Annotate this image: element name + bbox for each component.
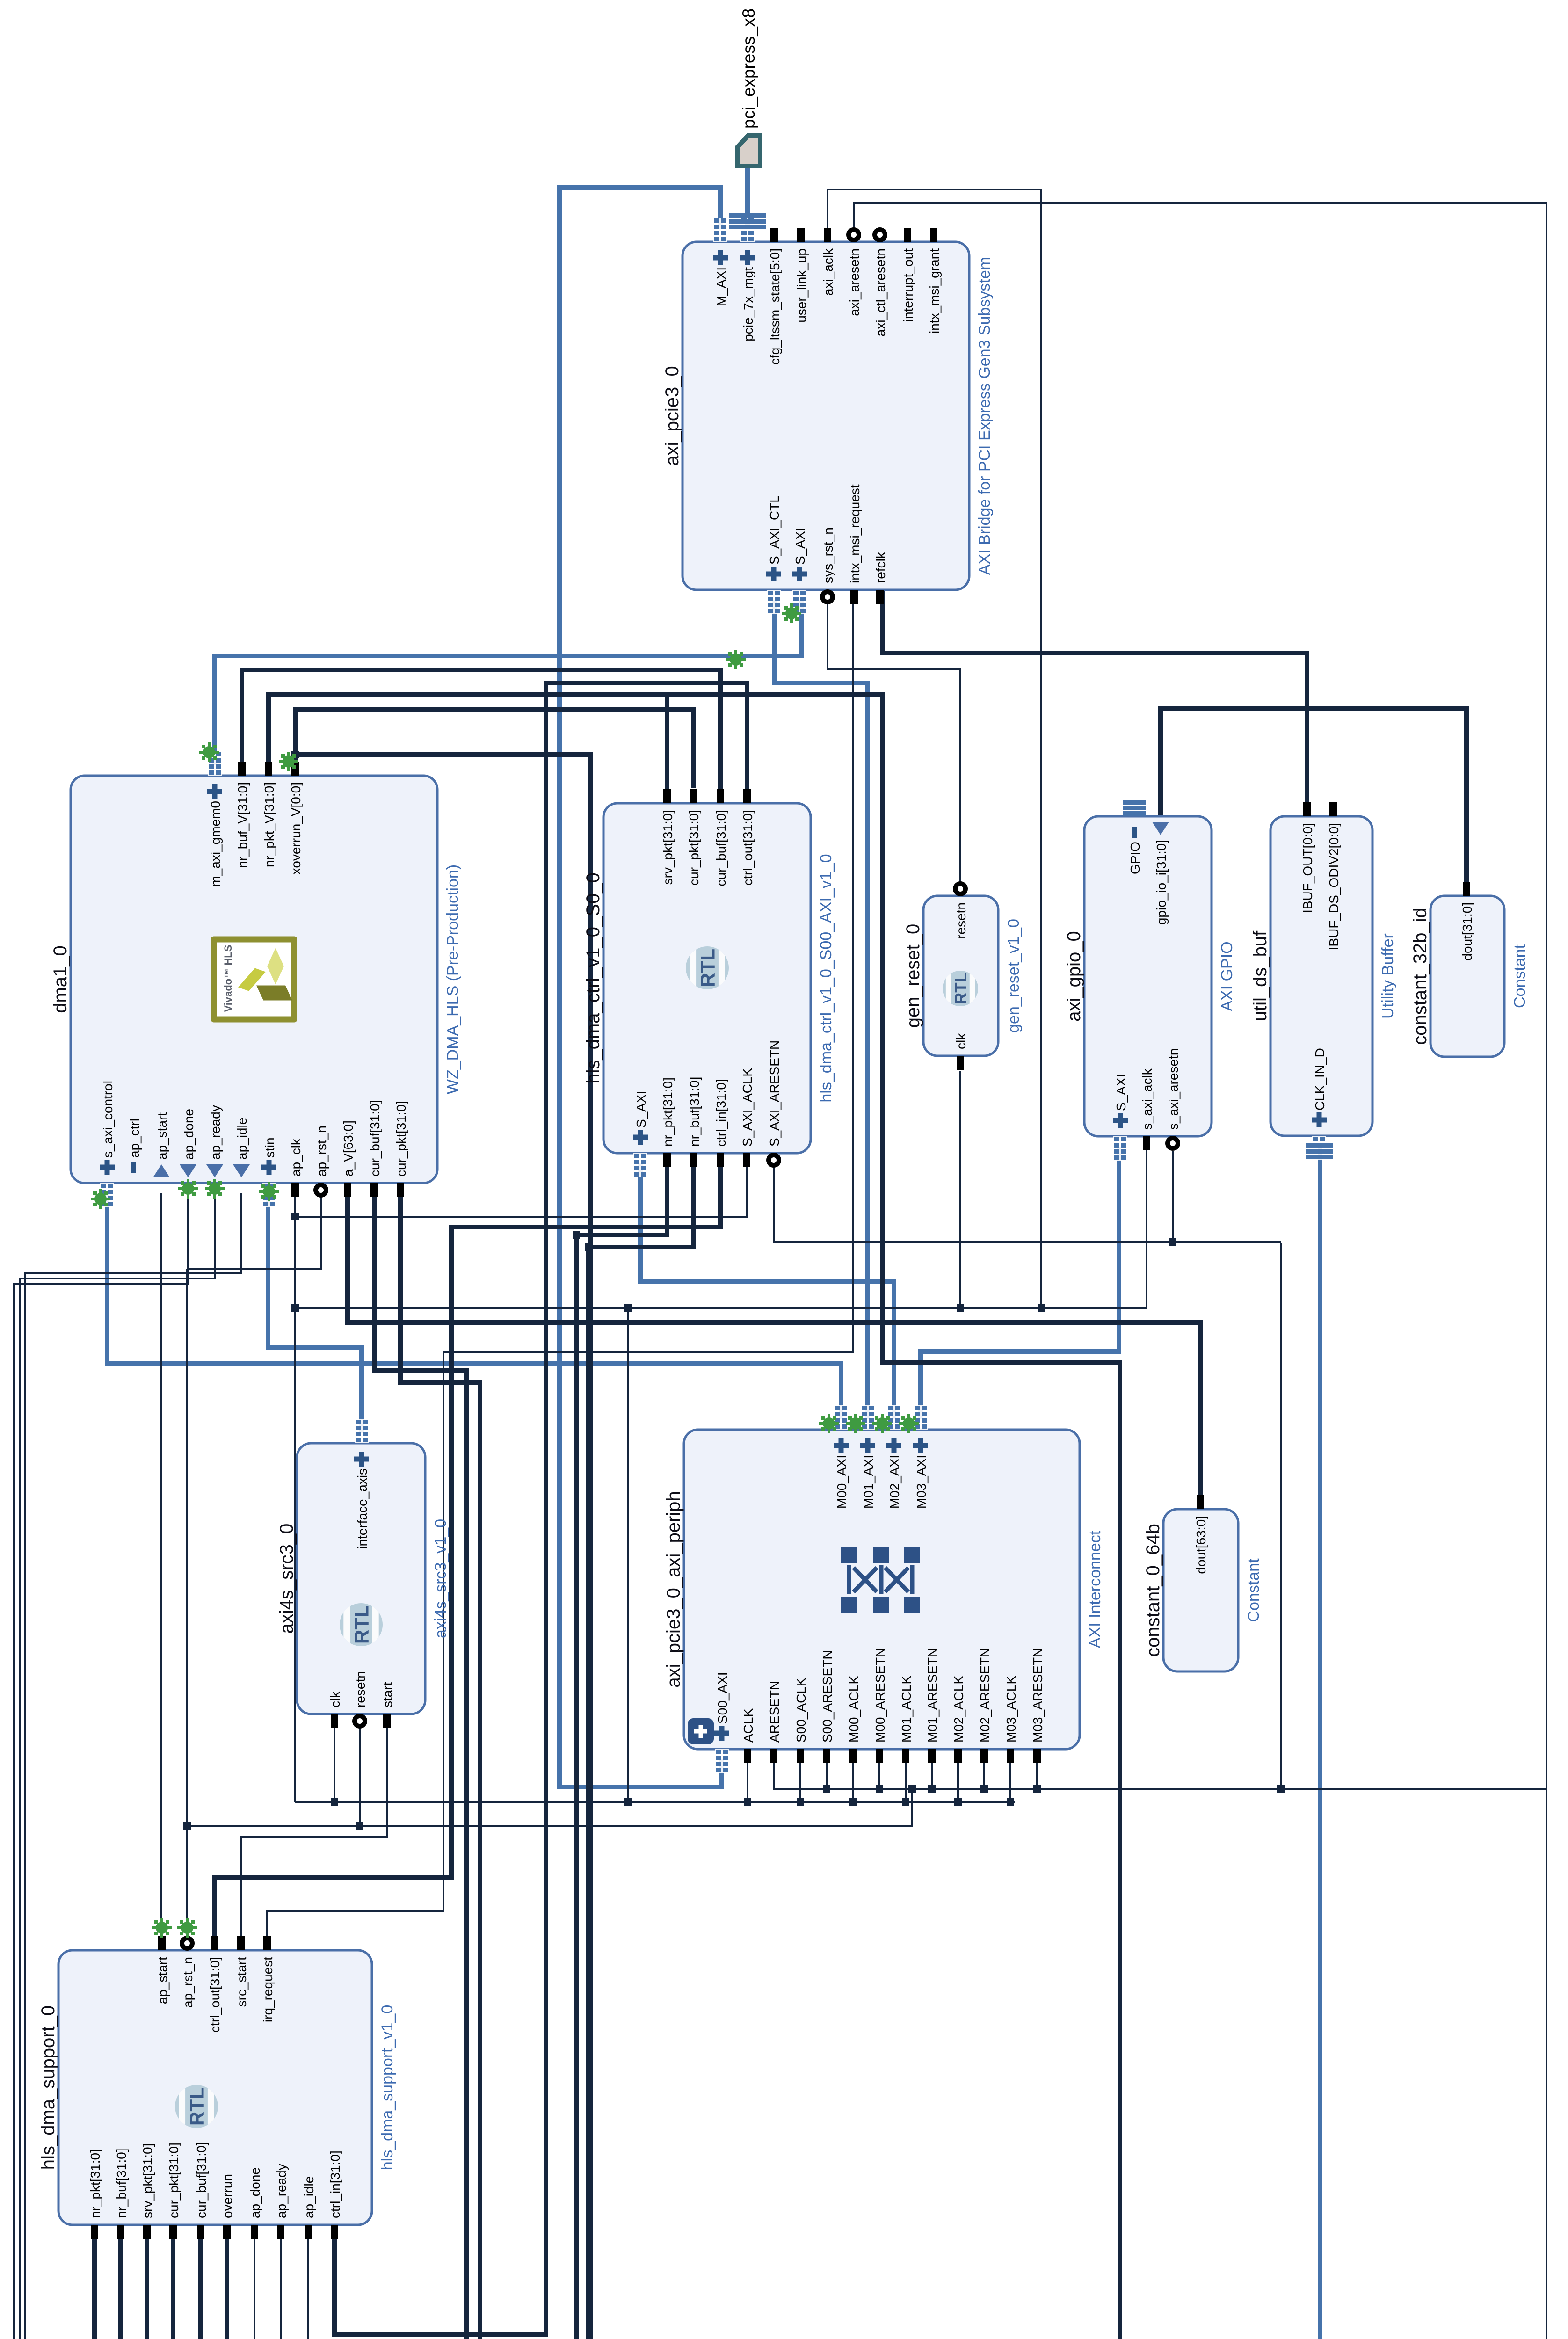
svg-text:s_axi_aclk: s_axi_aclk: [1140, 1068, 1154, 1130]
wire aclk to gen_reset/clk: [959, 1071, 961, 1308]
pin gen_reset_0.resetn: [953, 881, 968, 896]
wire util_ds_buf/IBUF_OUT to axi_pcie3_0/refclk: [882, 590, 1307, 806]
junction: [291, 751, 299, 758]
connector pcie_7x_mgt: [729, 213, 766, 229]
pin axi_pcie3_0_axi_periph.ACLK: [744, 1749, 751, 1763]
debug bug: [819, 1414, 839, 1433]
svg-text:M00_AXI: M00_AXI: [835, 1455, 849, 1509]
wire axi_aresetn trunk: [774, 203, 1546, 1789]
svg-text:ctrl_out[31:0]: ctrl_out[31:0]: [740, 810, 755, 886]
wire cur_pkt net support to dma1: [173, 1193, 480, 2339]
svg-text:constant_32b_id: constant_32b_id: [1410, 908, 1430, 1045]
svg-text:cur_buf[31:0]: cur_buf[31:0]: [714, 810, 728, 886]
external port pci_express_x8: [737, 8, 760, 166]
svg-text:user_link_up: user_link_up: [794, 248, 809, 323]
connector GPIO: [1123, 800, 1146, 816]
svg-text:refclk: refclk: [873, 552, 888, 583]
svg-text:ap_rst_n: ap_rst_n: [314, 1126, 329, 1177]
svg-text:dout[63:0]: dout[63:0]: [1194, 1516, 1208, 1574]
svg-text:srv_pkt[31:0]: srv_pkt[31:0]: [140, 2143, 155, 2218]
svg-text:ap_start: ap_start: [155, 1112, 169, 1160]
svg-text:M01_AXI: M01_AXI: [861, 1455, 876, 1509]
pin dma1_0.ap_rst_n: [313, 1183, 328, 1198]
svg-text:interface_axis: interface_axis: [355, 1468, 370, 1549]
wire hls_dma_support/overrun to xoverrun net: [227, 755, 590, 2339]
interface stub dma1_0.s_axi_control: [100, 1183, 114, 1207]
debug bug: [259, 1182, 279, 1201]
svg-text:RTL: RTL: [697, 949, 719, 987]
wire axi4s_src3_0/interface_axis to dma1_0/stin: [268, 1193, 362, 1433]
svg-text:RTL: RTL: [351, 1605, 373, 1644]
svg-text:axi4s_src3_0: axi4s_src3_0: [276, 1524, 297, 1634]
svg-text:sys_rst_n: sys_rst_n: [821, 527, 835, 583]
interface stub axi_pcie3_0.S_AXI_CTL: [767, 590, 781, 614]
wire aclk to gpio s_axi_aclk: [1146, 1147, 1147, 1308]
svg-text:nr_pkt_V[31:0]: nr_pkt_V[31:0]: [262, 782, 276, 867]
svg-text:util_ds_buf: util_ds_buf: [1250, 930, 1270, 1021]
wire ap_done loop: [14, 1193, 254, 2339]
debug bug: [726, 650, 746, 669]
junction: [954, 1798, 962, 1806]
interface stub hls_dma_ctrl_v1_0_S0_0.S_AXI: [633, 1153, 647, 1177]
wire aresetn bottom tail: [1546, 1789, 1547, 2339]
junction: [624, 1798, 632, 1806]
interface stub axi_pcie3_0_axi_periph.M02_AXI: [887, 1405, 901, 1430]
svg-text:cur_pkt[31:0]: cur_pkt[31:0]: [167, 2143, 181, 2218]
wire dma1_0/xoverrun_V to hls_dma_ctrl/cur_pkt channel: [295, 710, 693, 788]
svg-text:ap_done: ap_done: [181, 1109, 196, 1160]
RTL logo gen_reset_0: [943, 971, 978, 1006]
svg-text:ctrl_in[31:0]: ctrl_in[31:0]: [714, 1079, 728, 1147]
svg-text:ap_ctrl: ap_ctrl: [127, 1119, 142, 1158]
svg-text:nr_pkt[31:0]: nr_pkt[31:0]: [661, 1077, 675, 1147]
svg-text:M03_ARESETN: M03_ARESETN: [1031, 1648, 1045, 1743]
svg-text:cur_buf[31:0]: cur_buf[31:0]: [194, 2142, 209, 2218]
svg-text:ARESETN: ARESETN: [767, 1681, 782, 1743]
svg-text:pci_express_x8: pci_express_x8: [739, 8, 758, 129]
svg-text:cur_buf[31:0]: cur_buf[31:0]: [368, 1100, 382, 1177]
svg-text:gen_reset_v1_0: gen_reset_v1_0: [1005, 919, 1023, 1033]
svg-text:gpio_io_i[31:0]: gpio_io_i[31:0]: [1154, 840, 1169, 925]
pin axi_pcie3_0.axi_ctl_aresetn: [872, 227, 887, 242]
svg-text:ap_ready: ap_ready: [208, 1105, 223, 1160]
wire pcie_7x_mgt to pci_express_x8: [745, 165, 750, 229]
wire resetn distribution spine: [187, 1789, 912, 1826]
wire dma1_0/nr_buf_V to hls_dma_ctrl/cur_buf: [242, 670, 720, 793]
pin hls_dma_support_0.nr_pkt[31:0]: [91, 2225, 98, 2239]
debug bug: [178, 1179, 198, 1199]
pin hls_dma_support_0.nr_buf[31:0]: [117, 2225, 124, 2239]
interface stub axi_pcie3_0_axi_periph.M01_AXI: [861, 1405, 875, 1430]
pin axi4s_src3_0.start: [383, 1714, 391, 1728]
svg-text:ctrl_out[31:0]: ctrl_out[31:0]: [208, 1957, 222, 2033]
svg-text:constant_0_64b: constant_0_64b: [1143, 1524, 1163, 1657]
wire aclk branch periph ACLK: [747, 1759, 748, 1802]
svg-text:xoverrun_V[0:0]: xoverrun_V[0:0]: [289, 782, 303, 875]
wire hls_dma_ctrl/srv_pkt stub run: [665, 694, 669, 793]
pin axi4s_src3_0.resetn: [352, 1714, 367, 1729]
junction: [573, 1231, 580, 1239]
svg-text:S_AXI: S_AXI: [1114, 1074, 1128, 1111]
wire aclk branch to periph y1936: [905, 1759, 907, 1802]
wire axi_periph/M00_AXI to dma1_0/s_axi_control: [107, 1193, 841, 1419]
svg-text:S00_AXI: S00_AXI: [715, 1672, 730, 1724]
svg-text:M03_AXI: M03_AXI: [914, 1455, 929, 1509]
svg-text:axi_gpio_0: axi_gpio_0: [1064, 931, 1084, 1022]
interface stub axi_pcie3_0.M_AXI: [713, 218, 727, 242]
interface stub axi_gpio_0.S_AXI: [1113, 1136, 1127, 1161]
svg-text:ap_done: ap_done: [248, 2167, 262, 2218]
wire aclk to dma1 ap_clk rail feed: [294, 1193, 296, 1802]
pin axi_pcie3_0.axi_aresetn: [846, 227, 861, 242]
svg-text:M02_AXI: M02_AXI: [887, 1455, 902, 1509]
svg-text:nr_buf_V[31:0]: nr_buf_V[31:0]: [235, 782, 250, 868]
wire pcie_refclk to util_ds_buf/CLK_IN_D: [1318, 1146, 1322, 2339]
pin axi_pcie3_0.interrupt_out: [904, 228, 911, 242]
svg-text:IBUF_OUT[0:0]: IBUF_OUT[0:0]: [1300, 823, 1315, 913]
pin axi_pcie3_0_axi_periph.M00_ACLK: [849, 1749, 857, 1763]
pin hls_dma_ctrl_v1_0_S0_0.nr_pkt[31:0]: [663, 1153, 671, 1167]
junction: [585, 1243, 592, 1251]
pin axi_pcie3_0.refclk: [876, 590, 884, 604]
wire nr_pkt net support to hls_dma_ctrl/nr_pkt: [94, 1163, 667, 2339]
pin axi_pcie3_0_axi_periph.S00_ARESETN: [823, 1749, 830, 1763]
svg-text:S_AXI_ARESETN: S_AXI_ARESETN: [767, 1040, 782, 1147]
wire gen_reset/resetn to axi_pcie3_0/sys_rst_n: [828, 600, 960, 886]
svg-text:cur_pkt[31:0]: cur_pkt[31:0]: [687, 810, 701, 886]
junction: [1007, 1798, 1014, 1806]
block axi_pcie3_0_axi_periph body: [684, 1430, 1080, 1749]
wire aclk branch to periph y2048: [957, 1759, 959, 1802]
svg-text:start: start: [380, 1682, 395, 1707]
pin dma1_0.nr_pkt_V[31:0]: [265, 762, 272, 776]
junction: [624, 1798, 632, 1806]
pin hls_dma_support_0.cur_buf[31:0]: [197, 2225, 204, 2239]
wire aresetn branch periph y1767: [826, 1759, 828, 1789]
svg-text:ap_clk: ap_clk: [289, 1138, 303, 1177]
wire hls_dma_support/ctrl_out to hls_dma_ctrl/ctrl_in: [214, 1163, 720, 1940]
svg-text:cur_pkt[31:0]: cur_pkt[31:0]: [394, 1101, 408, 1177]
junction: [1277, 1785, 1285, 1793]
pin gen_reset_0.clk: [957, 1056, 964, 1070]
svg-text:axi_ctl_aresetn: axi_ctl_aresetn: [873, 248, 888, 336]
wire axi_periph/M02_AXI to hls_dma_ctrl/S_AXI: [640, 1163, 894, 1419]
pin axi_pcie3_0_axi_periph.M01_ARESETN: [928, 1749, 936, 1763]
svg-text:hls_dma_ctrl_v1_0_S0_0: hls_dma_ctrl_v1_0_S0_0: [583, 872, 603, 1083]
pin axi_pcie3_0_axi_periph.M03_ARESETN: [1033, 1749, 1041, 1763]
svg-text:Constant: Constant: [1245, 1558, 1263, 1622]
wire aclk to axi4s_src3/clk: [334, 1724, 335, 1802]
svg-text:S_AXI_CTL: S_AXI_CTL: [767, 495, 782, 565]
svg-text:src_start: src_start: [234, 1957, 249, 2007]
junction: [624, 1304, 632, 1312]
svg-text:irq_request: irq_request: [261, 1957, 275, 2022]
wire aclk branch to periph y1711: [799, 1759, 801, 1802]
pin hls_dma_ctrl_v1_0_S0_0.cur_pkt[31:0]: [690, 789, 697, 803]
svg-text:cfg_ltssm_state[5:0]: cfg_ltssm_state[5:0]: [768, 248, 782, 365]
pin dma1_0.a_V[63:0]: [344, 1183, 351, 1197]
pin hls_dma_support_0.ap_idle: [305, 2225, 312, 2239]
block dma1_0 body: [71, 776, 437, 1183]
svg-text:IBUF_DS_ODIV2[0:0]: IBUF_DS_ODIV2[0:0]: [1327, 823, 1341, 950]
svg-text:nr_pkt[31:0]: nr_pkt[31:0]: [88, 2149, 102, 2218]
svg-text:Vivado™ HLS: Vivado™ HLS: [222, 945, 234, 1012]
pin axi_pcie3_0_axi_periph.M01_ACLK: [902, 1749, 909, 1763]
pin axi_gpio_0.s_axi_aresetn: [1165, 1136, 1180, 1151]
svg-text:AXI Interconnect: AXI Interconnect: [1086, 1530, 1104, 1648]
wire aresetn branch east: [1280, 1243, 1282, 1789]
junction: [744, 1798, 751, 1806]
junction: [573, 1231, 580, 1239]
svg-text:s_axi_aresetn: s_axi_aresetn: [1166, 1048, 1181, 1130]
wire reset to dma1 ap_rst_n: [187, 1193, 321, 1269]
svg-text:hls_dma_ctrl_v1_0_S00_AXI_v1_0: hls_dma_ctrl_v1_0_S00_AXI_v1_0: [817, 854, 835, 1102]
wire hls_dma_ctrl/srv_pkt to hls_dma_support/srv_pkt: [147, 694, 1120, 2339]
pin hls_dma_ctrl_v1_0_S0_0.cur_buf[31:0]: [717, 789, 724, 803]
svg-text:pcie_7x_mgt: pcie_7x_mgt: [741, 267, 755, 341]
svg-text:Constant: Constant: [1511, 944, 1529, 1008]
block constant_32b_id body: [1430, 896, 1504, 1057]
block axi_pcie3_0 body: [682, 242, 969, 590]
pin hls_dma_support_0.ap_start: [158, 1936, 166, 1950]
svg-text:M02_ARESETN: M02_ARESETN: [978, 1648, 992, 1743]
pin axi_pcie3_0_axi_periph.S00_ACLK: [797, 1749, 804, 1763]
wire aclk to hls ctrl S_AXI_ACLK: [295, 1163, 747, 1217]
svg-text:RTL: RTL: [952, 973, 970, 1004]
pin hls_dma_support_0.cur_pkt[31:0]: [169, 2225, 177, 2239]
svg-text:S00_ARESETN: S00_ARESETN: [820, 1650, 835, 1743]
svg-text:dma1_0: dma1_0: [50, 945, 71, 1013]
pin hls_dma_support_0.ap_rst_n: [180, 1936, 195, 1951]
pin axi_pcie3_0_axi_periph.ARESETN: [770, 1749, 777, 1763]
svg-text:s_axi_control: s_axi_control: [101, 1081, 115, 1158]
pin axi_pcie3_0.cfg_ltssm_state[5:0]: [770, 228, 778, 242]
svg-text:intx_msi_request: intx_msi_request: [848, 484, 862, 583]
wire axi_periph/M03_AXI to axi_gpio_0/S_AXI: [921, 1147, 1119, 1419]
interface stub axi_pcie3_0.pcie_7x_mgt: [740, 218, 755, 242]
wire constant_0_64b/dout to dma1_0/a_V: [348, 1183, 1200, 1499]
svg-text:WZ_DMA_HLS (Pre-Production): WZ_DMA_HLS (Pre-Production): [444, 864, 462, 1094]
junction: [980, 1785, 988, 1793]
pin hls_dma_ctrl_v1_0_S0_0.ctrl_out[31:0]: [743, 789, 751, 803]
wire aresetn branch periph y2217: [1036, 1759, 1038, 1789]
interface stub dma1_0.stin: [262, 1183, 276, 1207]
junction: [183, 1822, 191, 1830]
wire axi_periph/M01_AXI to axi_pcie3_0/S_AXI_CTL: [774, 600, 868, 1419]
interface stub axi_pcie3_0_axi_periph.M00_AXI: [834, 1405, 848, 1430]
pin hls_dma_ctrl_v1_0_S0_0.S_AXI_ACLK: [743, 1153, 750, 1167]
pin hls_dma_support_0.ap_done: [251, 2225, 258, 2239]
svg-text:resetn: resetn: [954, 902, 968, 939]
svg-text:dout[31:0]: dout[31:0]: [1460, 902, 1474, 961]
junction: [585, 1243, 592, 1251]
junction: [902, 1798, 909, 1806]
svg-text:CLK_IN_D: CLK_IN_D: [1313, 1048, 1327, 1111]
junction: [849, 1798, 857, 1806]
debug bug: [152, 1918, 172, 1938]
wire aclk branch to periph y2160: [1009, 1759, 1011, 1802]
svg-text:gen_reset_0: gen_reset_0: [903, 924, 923, 1028]
expand button axi_pcie3_0_axi_periph: [688, 1718, 714, 1744]
pin constant_0_64b.dout[63:0]: [1197, 1495, 1204, 1509]
pin hls_dma_support_0.ctrl_out[31:0]: [211, 1936, 218, 1950]
debug bug: [177, 1918, 197, 1938]
pin dma1_0.ap_clk: [291, 1183, 299, 1197]
junction: [797, 1798, 804, 1806]
wire ap_idle loop: [25, 1193, 308, 2339]
pin hls_dma_support_0.ap_ready: [277, 2225, 284, 2239]
svg-text:clk: clk: [954, 1033, 968, 1049]
svg-text:S_AXI_ACLK: S_AXI_ACLK: [740, 1068, 755, 1147]
interface stub dma1_0.m_axi_gmem0: [208, 751, 222, 776]
svg-text:a_V[63:0]: a_V[63:0]: [341, 1120, 356, 1177]
block gen_reset_0 body: [923, 896, 998, 1056]
debug bug: [782, 603, 801, 623]
junction: [908, 1785, 916, 1793]
pin hls_dma_support_0.srv_pkt[31:0]: [143, 2225, 151, 2239]
svg-text:M01_ACLK: M01_ACLK: [899, 1675, 914, 1743]
interface stub axi4s_src3_0.interface_axis: [355, 1419, 369, 1443]
svg-text:S_AXI: S_AXI: [793, 528, 807, 565]
wire nr_buf net support to hls_dma_ctrl/nr_buf: [121, 1163, 694, 2339]
svg-text:axi_aresetn: axi_aresetn: [847, 248, 862, 316]
debug bug: [279, 752, 298, 771]
pin hls_dma_ctrl_v1_0_S0_0.nr_buf[31:0]: [690, 1153, 697, 1167]
svg-text:axi4s_src3_v1_0: axi4s_src3_v1_0: [432, 1519, 450, 1638]
wire support ap_rst_n tie: [186, 1269, 188, 1925]
pin axi_pcie3_0.intx_msi_request: [850, 590, 858, 604]
svg-text:intx_msi_grant: intx_msi_grant: [927, 248, 942, 334]
wire support/irq_request to pcie/intx_msi_request: [267, 600, 853, 1940]
connector CLK_IN_D: [1306, 1143, 1333, 1159]
wire aresetn branch periph y1992: [931, 1759, 933, 1789]
debug bug: [846, 1414, 865, 1433]
svg-text:axi_pcie3_0: axi_pcie3_0: [662, 366, 682, 466]
junction: [957, 1304, 964, 1312]
svg-text:AXI GPIO: AXI GPIO: [1218, 941, 1236, 1011]
wire clock rail feed spur: [627, 1308, 629, 1802]
svg-text:AXI Bridge for PCI Express Gen: AXI Bridge for PCI Express Gen3 Subsyste…: [976, 257, 994, 575]
svg-text:GPIO: GPIO: [1128, 842, 1142, 874]
pin axi4s_src3_0.clk: [331, 1714, 338, 1728]
svg-text:M03_ACLK: M03_ACLK: [1004, 1675, 1018, 1743]
wire aresetn branch periph y2104: [983, 1759, 985, 1789]
wire ap_start net dma1-support: [160, 1193, 162, 1940]
svg-text:Utility Buffer: Utility Buffer: [1379, 933, 1397, 1019]
wire dma1_0/m_axi_gmem0 to axi_pcie3_0/S_AXI: [215, 600, 801, 765]
svg-text:hls_dma_support_0: hls_dma_support_0: [38, 2005, 58, 2170]
svg-text:RTL: RTL: [186, 2087, 208, 2126]
RTL logo hls_dma_support_0: [175, 2085, 218, 2128]
pin util_ds_buf.IBUF_OUT[0:0]: [1303, 802, 1311, 816]
pin axi_pcie3_0.sys_rst_n: [820, 589, 835, 604]
pin axi_pcie3_0_axi_periph.M03_ACLK: [1007, 1749, 1014, 1763]
pin hls_dma_ctrl_v1_0_S0_0.ctrl_in[31:0]: [717, 1153, 724, 1167]
pin dma1_0.cur_buf[31:0]: [370, 1183, 378, 1197]
junction: [1033, 1785, 1041, 1793]
svg-text:ap_ready: ap_ready: [274, 2164, 289, 2218]
svg-text:M00_ACLK: M00_ACLK: [847, 1675, 861, 1743]
svg-text:hls_dma_support_v1_0: hls_dma_support_v1_0: [378, 2005, 396, 2170]
wire hls_dma_ctrl/ctrl_out to hls_dma_support/ctrl_in: [334, 683, 747, 2334]
block constant_0_64b body: [1163, 1509, 1238, 1671]
svg-text:axi_aclk: axi_aclk: [821, 248, 835, 296]
debug bug: [199, 742, 219, 762]
wire aclk branch to periph y1824: [852, 1759, 854, 1802]
svg-text:m_axi_gmem0: m_axi_gmem0: [208, 801, 223, 887]
svg-text:resetn: resetn: [353, 1671, 368, 1707]
wire aclk spine: [295, 1307, 1147, 1309]
debug bug: [872, 1414, 892, 1433]
pin axi_pcie3_0.intx_msi_grant: [930, 228, 937, 242]
RTL logo hls_dma_ctrl_v1_0_S0_0: [686, 946, 729, 989]
AXI Interconnect icon axi_pcie3_0_axi_periph: [841, 1547, 920, 1613]
pin dma1_0.cur_pkt[31:0]: [397, 1183, 404, 1197]
wire ap_ready loop: [20, 1193, 281, 2339]
pin axi_pcie3_0_axi_periph.M00_ARESETN: [876, 1749, 883, 1763]
junction: [1169, 1238, 1176, 1246]
svg-text:srv_pkt[31:0]: srv_pkt[31:0]: [661, 810, 675, 885]
svg-text:ACLK: ACLK: [741, 1708, 755, 1743]
pin axi_pcie3_0_axi_periph.M02_ACLK: [954, 1749, 962, 1763]
interface stub axi_pcie3_0_axi_periph.S00_AXI: [715, 1749, 729, 1773]
block axi4s_src3_0 body: [297, 1443, 425, 1714]
pin hls_dma_ctrl_v1_0_S0_0.S_AXI_ARESETN: [766, 1153, 781, 1168]
pin hls_dma_support_0.irq_request: [263, 1936, 271, 1950]
wire reset to axi4s resetn: [359, 1724, 361, 1826]
svg-text:nr_buf[31:0]: nr_buf[31:0]: [114, 2149, 129, 2218]
svg-text:ctrl_in[31:0]: ctrl_in[31:0]: [328, 2150, 342, 2218]
svg-text:ap_start: ap_start: [155, 1957, 170, 2004]
block hls_dma_ctrl_v1_0_S0_0 body: [603, 803, 811, 1153]
junction: [331, 1798, 338, 1806]
svg-text:S_AXI: S_AXI: [634, 1091, 648, 1128]
svg-text:overrun: overrun: [220, 2174, 235, 2218]
svg-text:clk: clk: [328, 1691, 342, 1707]
block axi_gpio_0 body: [1084, 816, 1212, 1136]
wire constant_32b_id/dout to axi_gpio_0/gpio_io_i: [1161, 709, 1466, 886]
wire aresetn to gpio s_axi_aresetn: [1172, 1151, 1174, 1242]
svg-text:nr_buf[31:0]: nr_buf[31:0]: [687, 1077, 702, 1147]
junction: [876, 1785, 883, 1793]
svg-text:S00_ACLK: S00_ACLK: [794, 1678, 808, 1743]
block hls_dma_support_0 body: [58, 1950, 372, 2225]
svg-text:stin: stin: [262, 1137, 277, 1158]
debug bug: [205, 1179, 225, 1199]
svg-text:M01_ARESETN: M01_ARESETN: [925, 1648, 940, 1743]
pin hls_dma_ctrl_v1_0_S0_0.srv_pkt[31:0]: [663, 789, 671, 803]
junction: [356, 1822, 363, 1830]
pin axi_pcie3_0.user_link_up: [797, 228, 805, 242]
pin util_ds_buf.IBUF_DS_ODIV2[0:0]: [1329, 802, 1337, 816]
svg-text:interrupt_out: interrupt_out: [901, 248, 915, 322]
Vivado HLS logo dma1_0: [211, 937, 297, 1023]
interface stub util_ds_buf.CLK_IN_D: [1312, 1136, 1326, 1160]
svg-text:ap_idle: ap_idle: [302, 2176, 316, 2218]
wire support/src_start to axi4s/start: [241, 1724, 387, 1940]
block util_ds_buf body: [1270, 816, 1372, 1136]
wire axi_pcie3_0/M_AXI to axi_periph/S00_AXI: [559, 188, 722, 1787]
junction: [823, 1785, 830, 1793]
debug bug: [899, 1414, 919, 1433]
wire cur_buf net support to dma1: [201, 1193, 466, 2339]
junction: [1038, 1304, 1045, 1312]
debug bug: [91, 1189, 110, 1209]
svg-text:M_AXI: M_AXI: [714, 267, 728, 306]
RTL logo axi4s_src3_0: [340, 1603, 383, 1646]
junction: [291, 1304, 299, 1312]
wire dma1_0/nr_pkt_V to hls_dma_ctrl/srv_pkt: [269, 694, 667, 793]
